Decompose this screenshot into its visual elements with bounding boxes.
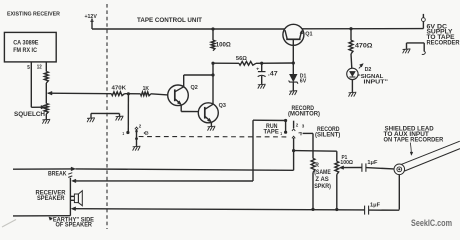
wire to 470K bbox=[48, 92, 112, 95]
svg-text:+12V: +12V bbox=[85, 14, 98, 20]
wire 1K to Q2 base bbox=[151, 94, 168, 95]
ground Q3 emitter bbox=[208, 126, 216, 130]
arrow light from D2 bbox=[360, 64, 364, 67]
S1b contact 3 chevron bbox=[299, 133, 302, 136]
ground at 6V return bbox=[403, 49, 411, 53]
terminal +12V bbox=[91, 19, 93, 22]
svg-text:5: 5 bbox=[27, 65, 30, 71]
capacitor C .47 curved plate bbox=[258, 75, 266, 76]
svg-text:56Ω: 56Ω bbox=[236, 56, 247, 62]
wire S1a wiper down bbox=[136, 129, 138, 146]
wire bottom rail right part bbox=[369, 209, 400, 211]
ground squelch bbox=[42, 119, 50, 123]
wire 470R to D2 bbox=[350, 54, 353, 68]
svg-text:SPEAKER: SPEAKER bbox=[37, 195, 65, 202]
svg-text:2: 2 bbox=[296, 123, 299, 129]
ground tape unit chassis bbox=[116, 116, 124, 120]
svg-text:3: 3 bbox=[302, 124, 305, 130]
Q1 emitter diagonal bbox=[300, 31, 302, 39]
Q1 emitter arrow bbox=[300, 30, 303, 34]
wire chassis bond left stub bbox=[90, 113, 92, 117]
wire squelch to ground bbox=[45, 114, 47, 119]
wire pin5 to squelch wiper bbox=[31, 106, 42, 108]
svg-text:1K: 1K bbox=[143, 86, 150, 92]
wire bottom rail left part bbox=[75, 209, 364, 210]
svg-text:12: 12 bbox=[37, 65, 42, 71]
wire D2 to ground bbox=[351, 80, 353, 93]
wire to cap .47 bbox=[261, 63, 263, 71]
jack plug center bbox=[398, 168, 400, 170]
svg-text:TAPE CONTROL UNIT: TAPE CONTROL UNIT bbox=[137, 17, 202, 24]
jack plug outer circle bbox=[394, 164, 405, 175]
ground cap .47 bbox=[258, 84, 266, 88]
jack plug barrel bbox=[402, 141, 460, 164]
D1 zener cathode bar bbox=[289, 81, 298, 84]
wire Q2 emitter down bbox=[180, 105, 182, 112]
Q3 emitter diagonal bbox=[205, 116, 211, 121]
svg-text:6V: 6V bbox=[300, 79, 307, 85]
svg-text:INPUT”: INPUT” bbox=[364, 79, 389, 85]
Q3 emitter arrow bbox=[207, 118, 211, 122]
svg-text:+: + bbox=[256, 67, 259, 72]
svg-text:1μF: 1μF bbox=[367, 160, 378, 166]
wire contact 1 stub bbox=[285, 121, 287, 133]
node cap branch bbox=[260, 62, 263, 65]
wire to S1b wiper node bbox=[76, 169, 294, 170]
IC U1 CA3089E box bbox=[4, 32, 56, 62]
scan artifact streak bbox=[2, 220, 16, 228]
S1a contact 1 dot bbox=[126, 131, 129, 134]
LED D2 triangle bbox=[349, 71, 355, 76]
Q3 base bar bbox=[204, 107, 206, 119]
svg-text:ON TAPE RECORDER: ON TAPE RECORDER bbox=[384, 137, 444, 143]
terminal tick bbox=[422, 14, 424, 18]
S1a wiper dot bbox=[135, 137, 138, 140]
wire pin12 down bbox=[45, 62, 47, 72]
resistor 1K bbox=[141, 92, 152, 96]
S1b wiper chevron bbox=[292, 136, 295, 138]
node 470K/1K junction bbox=[127, 92, 130, 95]
wire 56R to Q1 base node bbox=[256, 62, 293, 64]
terminal return plug bbox=[422, 52, 426, 55]
wire pin12 node bbox=[45, 83, 47, 104]
Q1 base bar bbox=[286, 38, 300, 40]
wire collector feed down to Q3 bbox=[212, 63, 214, 104]
svg-text:100Ω: 100Ω bbox=[340, 160, 353, 166]
svg-text:R: R bbox=[315, 163, 319, 169]
wire top rail left of Q1 bbox=[92, 28, 285, 30]
wire Q2 collector to rail branch bbox=[184, 74, 213, 76]
wire run tape horizontal bbox=[253, 119, 286, 121]
wire receiver output line bbox=[13, 168, 71, 170]
wire speaker stub top bbox=[70, 195, 74, 197]
resistor 470K bbox=[112, 92, 125, 96]
svg-text:SQUELCH: SQUELCH bbox=[14, 111, 45, 118]
node rail 470R branch bbox=[349, 27, 352, 30]
capacitor C top 1uF left plate bbox=[361, 163, 363, 171]
svg-text:RECORDER: RECORDER bbox=[427, 41, 460, 47]
node R bottom bbox=[311, 208, 314, 211]
S1a contact 3 chevron bbox=[144, 131, 146, 134]
Q1 collector diagonal bbox=[285, 30, 287, 39]
capacitor C bottom 1uF right plate bbox=[368, 206, 370, 215]
terminal 6V DC supply bbox=[422, 18, 426, 22]
wire cap to ground bbox=[261, 76, 263, 84]
wire node to S1a contact 1 bbox=[127, 94, 129, 133]
ground D2 bbox=[349, 92, 357, 96]
boundary: dashed separator between existing receiver and tape control unit bbox=[106, 4, 108, 229]
wire down to R bbox=[312, 133, 314, 158]
arrow return line bbox=[72, 179, 76, 183]
svg-text:TAPE: TAPE bbox=[264, 129, 279, 135]
wire wiper node to P1 bbox=[294, 150, 337, 153]
arrow to squelch node bbox=[48, 91, 52, 95]
break tick 1 bbox=[68, 173, 72, 175]
node Q1 base bbox=[292, 61, 295, 64]
arrow shielded lead pointer bbox=[410, 143, 411, 153]
wire Q2 collector up bbox=[183, 75, 185, 87]
svg-text:2: 2 bbox=[139, 123, 142, 129]
svg-text:CA 3089E: CA 3089E bbox=[13, 40, 38, 47]
svg-text:100Ω: 100Ω bbox=[216, 42, 231, 49]
wire top rail right of Q1 bbox=[302, 28, 423, 30]
ground S1a wiper bbox=[133, 146, 141, 150]
svg-text:OF SPEAKER: OF SPEAKER bbox=[56, 221, 93, 228]
wire Q1 base down bbox=[292, 39, 294, 63]
S1a contact 2 chevron bbox=[135, 127, 138, 129]
Q2 emitter diagonal bbox=[175, 99, 181, 104]
Q3 collector diagonal bbox=[205, 104, 213, 109]
svg-text:D2: D2 bbox=[365, 67, 372, 73]
Q2 emitter arrow bbox=[177, 101, 181, 105]
resistor R bbox=[311, 158, 315, 172]
arrow bottom rail to speaker bbox=[71, 207, 75, 211]
wire rail to 100R bbox=[212, 29, 214, 40]
wire cap to jack tip bbox=[366, 168, 394, 169]
LED D2 circle bbox=[347, 68, 358, 79]
wire P1 top bbox=[336, 151, 338, 161]
node rail 100R branch bbox=[211, 27, 214, 30]
S1b contact 1 dot bbox=[284, 131, 287, 134]
ground D1 bbox=[289, 91, 297, 95]
transistor Q1 circle bbox=[283, 24, 304, 45]
wire bracket right bbox=[423, 43, 425, 52]
wire 470K to 1K bbox=[125, 93, 141, 95]
wire bracket top bbox=[407, 42, 425, 44]
svg-text:FM RX IC: FM RX IC bbox=[13, 47, 37, 54]
svg-text:(SAME: (SAME bbox=[314, 170, 331, 176]
Q2 base bar bbox=[174, 89, 176, 101]
wire Q3 emitter to ground bbox=[210, 122, 212, 126]
wire S1b wiper down bbox=[293, 138, 295, 170]
transistor Q2 circle bbox=[168, 85, 189, 106]
wire jack sleeve down bbox=[398, 175, 400, 210]
wire +12V down bbox=[91, 21, 93, 29]
svg-text:Q3: Q3 bbox=[219, 103, 227, 109]
ground receiver chassis bbox=[87, 118, 95, 122]
wire chassis bond bbox=[91, 112, 120, 114]
mechanical link dashed line between switch poles bbox=[139, 136, 288, 138]
node Q2 collector junction bbox=[211, 73, 214, 76]
wire speaker stub bottom bbox=[70, 199, 74, 201]
arrow P1 wiper bbox=[339, 166, 343, 170]
wire R to bottom rail bbox=[312, 172, 314, 209]
svg-text:Z AS: Z AS bbox=[315, 177, 328, 183]
svg-text:1μF: 1μF bbox=[370, 203, 381, 209]
wire bracket left bbox=[406, 43, 408, 49]
svg-text:Q1: Q1 bbox=[305, 31, 313, 37]
wire P1 to bottom rail bbox=[336, 174, 338, 209]
resistor 56R bbox=[239, 61, 256, 65]
wire base node to D1 bbox=[292, 63, 294, 74]
wire to 56R bbox=[213, 62, 239, 64]
svg-text:.47: .47 bbox=[268, 71, 278, 78]
svg-text:Q2: Q2 bbox=[191, 85, 198, 91]
svg-text:SPKR): SPKR) bbox=[314, 184, 331, 190]
node 100R bottom bbox=[211, 62, 214, 65]
svg-text:3: 3 bbox=[146, 130, 149, 136]
S1b contact 2 chevron bbox=[292, 129, 295, 131]
wire P1 wiper to cap bbox=[344, 167, 362, 169]
resistor 470R bbox=[349, 40, 353, 54]
transistor Q3 circle bbox=[198, 103, 218, 123]
break tick 2 bbox=[68, 176, 72, 178]
resistor 100R bbox=[211, 40, 215, 51]
resistor on pin 12 bbox=[44, 72, 48, 84]
wire D1 to ground bbox=[292, 82, 294, 91]
svg-text:BREAK: BREAK bbox=[48, 170, 67, 177]
S1a dot upper bbox=[135, 130, 138, 133]
diode D1 zener triangle bbox=[290, 74, 297, 81]
jack plug inner circle bbox=[397, 167, 402, 172]
capacitor C top 1uF right plate bbox=[365, 163, 367, 171]
svg-text:(SILENT): (SILENT) bbox=[315, 133, 340, 139]
arrow break injection bbox=[71, 167, 75, 171]
wire rail to 470R bbox=[350, 29, 352, 41]
node P1 bottom bbox=[335, 208, 338, 211]
wire chassis bond right stub bbox=[119, 114, 121, 117]
wire up to 6V terminal bbox=[422, 22, 424, 29]
wire run tape vertical bbox=[252, 120, 254, 181]
node contact 1 top bbox=[284, 119, 287, 122]
node wiper junction bbox=[292, 149, 295, 152]
arrow squelch wiper bbox=[41, 105, 45, 109]
capacitor C .47 top plate bbox=[258, 71, 266, 73]
potentiometer squelch bbox=[44, 104, 48, 115]
arrow light shaft bbox=[359, 65, 362, 69]
svg-text:SeekIC.com: SeekIC.com bbox=[411, 218, 452, 228]
svg-text:EXISTING RECEIVER: EXISTING RECEIVER bbox=[7, 12, 61, 18]
wire earthy side bbox=[13, 215, 70, 217]
svg-text:470K: 470K bbox=[112, 86, 127, 92]
potentiometer P1 bbox=[335, 161, 339, 174]
wire S1b contact 2 stub bbox=[293, 121, 295, 129]
wire return line to RUN TAPE bbox=[76, 180, 253, 182]
svg-text:(MONITOR): (MONITOR) bbox=[288, 112, 320, 118]
wire Q2 emitter to Q3 base bbox=[181, 111, 198, 113]
wire contact 3 to R bbox=[303, 132, 313, 134]
wire speaker vertical bbox=[69, 178, 71, 216]
Q2 collector diagonal bbox=[175, 87, 184, 92]
svg-text:470Ω: 470Ω bbox=[355, 43, 373, 50]
LED D2 cathode bar bbox=[349, 76, 355, 78]
speaker LS1 bbox=[74, 194, 78, 203]
capacitor C bottom 1uF left plate bbox=[364, 206, 366, 215]
arrow earthy pointer bbox=[50, 218, 52, 220]
wire pin5 down bbox=[30, 62, 32, 107]
